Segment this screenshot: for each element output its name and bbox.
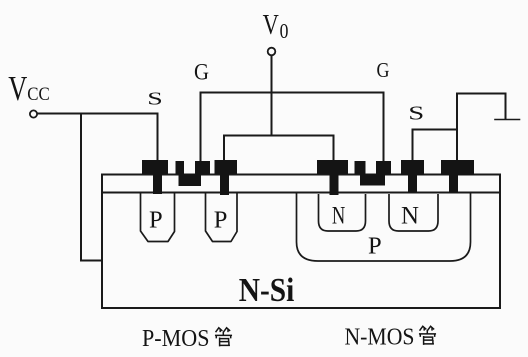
ground	[495, 119, 520, 121]
P well (N-MOS body)	[297, 193, 471, 261]
wire drain bus horizontal	[224, 135, 334, 137]
contact D of P-MOS (metal)	[215, 160, 238, 195]
svg-text:V: V	[263, 10, 279, 41]
wire P-MOS gate vertical	[200, 93, 202, 162]
glyph guan (pipe) for P-MOS caption	[216, 328, 232, 346]
gate G of P-MOS (metal U)	[176, 161, 211, 186]
svg-text:P: P	[368, 233, 382, 260]
N well 2 (N-MOS source)	[389, 194, 438, 231]
P well 1 (P-MOS source)	[141, 193, 175, 242]
wire to ground horizontal	[457, 93, 506, 95]
svg-text:S: S	[408, 102, 424, 124]
svg-text:S: S	[147, 88, 163, 108]
wire gate bus horizontal G	[201, 92, 384, 94]
svg-text:P: P	[149, 207, 163, 234]
contact D of N-MOS (metal)	[317, 160, 348, 195]
N well 1 (N-MOS drain)	[319, 194, 366, 231]
oxide bottom line	[102, 192, 500, 194]
svg-text:N-MOS: N-MOS	[345, 324, 415, 350]
P well 2 (P-MOS drain)	[206, 193, 238, 242]
svg-text:P-MOS: P-MOS	[142, 326, 210, 352]
wire S2 horizontal	[413, 129, 458, 131]
wire body contact vertical	[456, 94, 458, 162]
wire Vcc horizontal to S1	[38, 113, 158, 115]
svg-text:0: 0	[280, 19, 289, 43]
svg-text:CC: CC	[27, 84, 50, 105]
wire Vcc substrate tie vertical	[80, 114, 82, 261]
contact S of N-MOS (metal)	[401, 160, 424, 193]
svg-text:V: V	[8, 69, 27, 108]
wire S1 vertical down to source contact	[157, 114, 159, 162]
substrate rectangle N-Si	[102, 175, 500, 309]
svg-text:G: G	[194, 60, 209, 85]
contact S of P-MOS (metal)	[142, 160, 168, 194]
wire N-MOS drain vertical	[333, 136, 335, 162]
svg-text:N: N	[332, 201, 345, 230]
wire S2 vertical down to source contact	[412, 130, 414, 162]
svg-text:P: P	[214, 207, 228, 234]
svg-text:G: G	[377, 58, 390, 82]
glyph guan (pipe) for N-MOS caption	[420, 326, 436, 344]
svg-text:N: N	[401, 201, 419, 230]
wire N-MOS gate vertical	[383, 93, 385, 162]
svg-text:N-Si: N-Si	[239, 272, 294, 309]
wire V0 vertical	[271, 56, 273, 136]
wire P-MOS drain vertical	[223, 136, 225, 162]
wire substrate tie horizontal into N-Si body	[81, 260, 102, 262]
terminal Vcc	[30, 110, 37, 117]
terminal V0	[268, 48, 276, 56]
gate G of N-MOS (metal U)	[355, 161, 392, 186]
contact body tie of N-MOS P well (metal)	[441, 160, 474, 193]
wire ground vertical	[505, 94, 507, 120]
